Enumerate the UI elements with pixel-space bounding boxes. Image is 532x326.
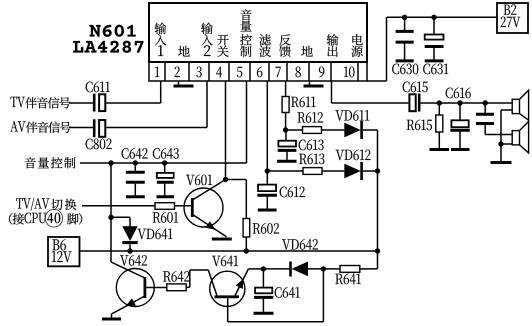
- node junction speaker common: [498, 141, 503, 146]
- label volume control input: [25, 157, 76, 168]
- power source B2 box: [497, 3, 528, 33]
- IC pin number 5: [237, 67, 242, 77]
- wire pin10 to B2 rail: [367, 80, 387, 82]
- capacitor C615 electrolytic: [409, 94, 415, 111]
- node junction on B2 rail at C631: [431, 15, 436, 20]
- wire pin7 to R611: [285, 81, 287, 97]
- ground for C616: [451, 148, 470, 151]
- ground for C630: [396, 59, 414, 62]
- wire C802 to pin3: [106, 127, 207, 129]
- wire R641 to riser: [360, 268, 378, 270]
- node junction at R615: [437, 100, 442, 105]
- label C643: [153, 148, 179, 159]
- resistor R601: [155, 203, 175, 210]
- node junction R602 B6 rail: [244, 248, 249, 253]
- wire VD642 to R641: [308, 268, 340, 270]
- label R613: [299, 154, 324, 165]
- node junction pin4 V601 collector: [223, 177, 228, 182]
- capacitor C616 electrolytic: [459, 103, 461, 120]
- wire V641 emitter bottom: [228, 321, 324, 323]
- node junction at C642: [133, 160, 138, 165]
- diode VD611: [344, 123, 360, 138]
- wire row B: [267, 170, 303, 172]
- wire R612 to VD611: [322, 129, 345, 131]
- label C641: [275, 287, 300, 298]
- wire branch to VD641: [111, 216, 130, 218]
- wire pin9 to C615: [331, 81, 333, 103]
- ground for C641: [254, 312, 274, 315]
- wire V641 collector row: [248, 268, 290, 270]
- IC pin number 4: [216, 67, 222, 78]
- label C631: [423, 64, 448, 75]
- wire row A left: [286, 129, 303, 131]
- resistor R615: [438, 103, 440, 115]
- wire TV input to C611: [69, 102, 93, 104]
- label C612: [280, 187, 305, 198]
- IC pin number 8: [295, 67, 300, 78]
- pin 10 label 电源: [352, 34, 362, 45]
- label TV/AV switch: [16, 198, 49, 211]
- pin 8 label 地: [301, 46, 312, 57]
- wire volume control row: [80, 162, 247, 164]
- label VD641: [138, 229, 173, 240]
- node junction riser B6 rail: [375, 248, 380, 253]
- resistor R613: [303, 168, 322, 175]
- IC pin cell dividers: [164, 62, 166, 81]
- label 27V: [501, 17, 521, 28]
- transistor V641: [210, 271, 245, 306]
- wire R642 to V641 base: [186, 286, 190, 288]
- label C615: [403, 82, 428, 93]
- wire collector node to R602: [226, 179, 247, 181]
- label R611: [291, 97, 315, 108]
- IC pin number 6: [257, 67, 262, 78]
- label B2: [504, 4, 517, 14]
- pin 9 label 输出: [327, 34, 339, 45]
- diode VD612: [344, 164, 360, 179]
- node junction riser row B: [375, 168, 380, 173]
- node junction at C616: [457, 100, 462, 105]
- ground for speakers: [491, 161, 512, 164]
- node junction VD642 R641: [321, 266, 326, 271]
- pin 7 label 反馈: [279, 34, 291, 45]
- capacitor C641 electrolytic: [262, 269, 264, 288]
- label C611: [86, 82, 110, 93]
- pin 5 label 音量控制: [240, 9, 251, 20]
- capacitor C642: [134, 163, 136, 171]
- ground pin 2: [178, 81, 180, 85]
- resistor R641: [340, 266, 360, 273]
- label VD612: [336, 150, 371, 161]
- IC pin number 7: [276, 67, 281, 77]
- label R642: [163, 271, 189, 282]
- pin 2 label 地: [178, 46, 189, 57]
- wire C615 to speaker: [421, 102, 513, 104]
- IC pin number 3: [196, 67, 201, 78]
- capacitor C630: [404, 17, 406, 30]
- wire pin4 riser: [225, 81, 227, 180]
- label C630: [392, 64, 418, 75]
- wire to lower speaker: [501, 143, 512, 145]
- wire TV/AV switch to R601: [82, 205, 155, 207]
- label V642: [120, 255, 147, 266]
- label connect CPU pin 40: [9, 213, 24, 225]
- node junction volume to V642 branch: [108, 160, 113, 165]
- speaker BL2 bottom: [512, 131, 519, 145]
- wire R602 to B6 rail: [245, 237, 247, 251]
- label V601: [186, 175, 212, 186]
- IC pin number 2: [175, 67, 180, 77]
- resistor R602: [243, 219, 250, 238]
- node junction at coupling cap: [483, 100, 488, 105]
- IC pin number 9: [319, 67, 324, 78]
- label 12V: [52, 251, 72, 262]
- capacitor speaker coupling: [484, 103, 486, 113]
- ground for C612: [258, 209, 277, 212]
- label B6: [52, 239, 65, 250]
- label R602: [253, 223, 279, 234]
- node junction row A: [283, 127, 288, 132]
- label C802: [86, 139, 112, 150]
- pin 3 label 输入2: [201, 23, 213, 34]
- IC N601 LA4287 outline box: [149, 3, 367, 62]
- ground for C631: [425, 59, 444, 62]
- wire R601 to V601 base: [175, 205, 193, 207]
- wire V642 base to R642: [146, 287, 167, 289]
- wire B6 12V rail: [80, 250, 378, 252]
- wire VD611 to riser: [363, 129, 378, 131]
- node junction at C641: [261, 266, 266, 271]
- wire R611 to row A: [285, 113, 287, 131]
- resistor R642: [167, 284, 186, 291]
- wire pin6 riser: [266, 81, 268, 185]
- pin 4 label 开关: [217, 35, 228, 46]
- ground for R615: [430, 148, 450, 151]
- wire B2 27V rail: [387, 16, 498, 18]
- diode VD642: [289, 262, 292, 277]
- ground for V642 emitter: [102, 318, 121, 321]
- IC part number label LA4287: [73, 41, 144, 53]
- node junction on B2 rail at C630: [402, 15, 407, 20]
- label C642: [122, 148, 148, 159]
- label AV audio signal input: [10, 121, 25, 131]
- ground pin 8: [309, 81, 311, 85]
- label R612: [298, 112, 323, 123]
- transistor V642: [116, 269, 154, 307]
- ground for C643: [157, 195, 175, 198]
- node junction VD641 B6 rail: [127, 248, 132, 253]
- capacitor C612 electrolytic: [258, 185, 276, 192]
- capacitor C643 electrolytic: [164, 163, 166, 173]
- ground for V601 emitter: [212, 238, 232, 241]
- wire right riser: [377, 130, 379, 269]
- label R615: [407, 120, 432, 131]
- wire volume branch down: [110, 163, 112, 262]
- wire C611 to pin1: [106, 102, 160, 104]
- label VD642: [282, 239, 318, 250]
- capacitor C613 electrolytic: [285, 130, 287, 141]
- wire speaker common: [501, 109, 512, 111]
- IC pin number 1: [155, 67, 159, 77]
- label V641: [212, 256, 238, 267]
- resistor R611: [282, 97, 289, 113]
- label R641: [335, 274, 360, 285]
- IC designator label N601: [89, 25, 135, 37]
- capacitor C631 electrolytic: [433, 17, 435, 34]
- label TV audio signal input: [10, 97, 24, 107]
- wire coupling cap to lower speaker: [485, 134, 512, 136]
- wire AV input to C802: [69, 127, 93, 129]
- speaker BL1 top: [512, 99, 519, 113]
- label R601: [153, 212, 178, 223]
- capacitor C611 electrolytic: [93, 94, 96, 112]
- node junction pin6 row B: [265, 168, 270, 173]
- diode VD641: [122, 226, 137, 241]
- node junction at C643: [162, 160, 167, 165]
- resistor R612: [303, 127, 322, 134]
- label C613: [299, 140, 324, 151]
- ground for C642: [126, 195, 145, 198]
- power source B6 box: [48, 237, 80, 266]
- pin 1 label 输入1: [155, 23, 167, 34]
- transistor V601: [184, 188, 223, 227]
- label C616: [446, 88, 471, 99]
- capacitor C802 electrolytic: [93, 119, 96, 137]
- label VD611: [335, 110, 369, 121]
- node junction VD641 branch: [108, 215, 113, 220]
- ground for C613: [277, 160, 296, 163]
- IC pin number 10: [344, 67, 355, 78]
- pin 6 label 滤波: [259, 34, 270, 45]
